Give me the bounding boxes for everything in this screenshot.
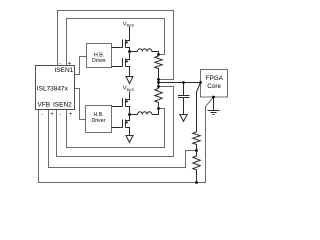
transistor Q1 source lead (126, 48, 130, 52)
wire ISEN1+ loop (IC top pin to R1 top node) (67, 19, 165, 66)
wire sense chain middle (158, 71, 160, 89)
node ISEN1- junction (157, 78, 160, 81)
op-amp U2 upper H.B. Driver box (87, 44, 112, 68)
node FPGA ground pin (212, 96, 215, 99)
svg-text:ISEN2: ISEN2 (53, 102, 72, 109)
svg-text:-: - (59, 61, 61, 67)
resistor R2 phase 2 current sense (155, 89, 162, 106)
svg-text:+: + (68, 61, 71, 67)
svg-text:Driver: Driver (92, 118, 106, 124)
transistor Q4 drain lead (126, 115, 130, 121)
wire VFB- loop (IC bottom pin to FPGA ground) (39, 97, 214, 183)
wire sense chain bottom to phase 2 inductor (152, 106, 159, 115)
wire output rail VOUT (159, 82, 201, 84)
svg-text:ISEN1: ISEN1 (55, 67, 74, 74)
wire L1 to sense chain corner (158, 51, 160, 56)
resistor R3 feedback divider top (193, 132, 200, 151)
inductor L1 (138, 49, 159, 52)
node divider ground (195, 181, 198, 184)
node phase 1 switch node (128, 50, 131, 53)
inductor L2 (138, 112, 152, 115)
transistor Q4 low-side FET phase 2 gate bar (122, 120, 124, 128)
wire upper driver gate stub low (112, 66, 123, 68)
svg-text:ISL73847x: ISL73847x (37, 85, 69, 92)
ground FPGA earth symbol bar 2 (211, 112, 217, 114)
node VOUT rail junction (157, 81, 160, 84)
svg-text:Driver: Driver (92, 58, 106, 64)
wire lower driver gate stub low (112, 127, 123, 129)
op-amp U4 FPGA Core box (201, 70, 228, 98)
node phase 2 switch node (128, 113, 131, 116)
ground phase 2 low FET (126, 136, 133, 143)
node ISEN2- junction (157, 85, 160, 88)
svg-text:-: - (59, 112, 61, 118)
svg-text:+: + (69, 112, 72, 118)
wire VFB+ loop (IC bottom pin to divider tap) (49, 110, 197, 168)
svg-text:VFB: VFB (38, 102, 51, 109)
wire phase 1 switch node to inductor (130, 51, 138, 53)
transistor Q3 source lead (126, 107, 130, 115)
node divider tap (195, 149, 198, 152)
transistor Q2 channel bar (125, 59, 127, 67)
transistor Q3 channel bar (125, 99, 127, 107)
transistor Q2 source lead (126, 67, 130, 77)
transistor Q4 channel bar (125, 120, 127, 128)
wire FPGA input to feedback divider (197, 83, 201, 133)
transistor Q2 body dot (126, 61, 128, 63)
transistor Q4 body dot (126, 122, 128, 124)
op-amp U3 lower H.B. Driver box (86, 106, 112, 133)
ground output capacitor (180, 115, 187, 122)
ground phase 1 low FET (126, 77, 133, 84)
transistor Q3 drain lead (126, 92, 130, 100)
node FPGA input (199, 81, 202, 84)
transistor Q3 body dot (126, 101, 128, 103)
svg-text:BUS: BUS (127, 88, 135, 92)
node ISEN1+ junction (157, 53, 160, 56)
capacitor C1 plate bottom (178, 97, 190, 99)
svg-text:-: - (41, 112, 43, 118)
svg-text:Core: Core (207, 83, 221, 90)
capacitor C1 plate top (178, 95, 190, 97)
ground FPGA earth symbol bar 3 (213, 114, 215, 116)
svg-text:FPGA: FPGA (206, 75, 224, 82)
resistor R4 feedback divider bottom (193, 151, 200, 183)
transistor Q1 channel bar (125, 40, 127, 48)
op-amp U1 controller box ISL73847x (36, 66, 75, 110)
wire PWM2 from IC to lower driver (75, 89, 86, 120)
node ISEN2+ junction (157, 107, 160, 110)
ground FPGA earth symbol bar 1 (208, 110, 220, 112)
resistor R1 phase 1 current sense (155, 56, 162, 71)
wire upper driver gate stub high (112, 47, 123, 49)
svg-text:+: + (50, 112, 53, 118)
transistor Q1 drain lead (126, 27, 130, 41)
transistor Q4 source lead (126, 128, 130, 136)
wire ISEN1- loop (IC top pin to R1 bottom node) (58, 11, 174, 80)
node capacitor tap (182, 81, 185, 84)
transistor Q2 drain lead (126, 52, 130, 60)
wire PWM1 from IC to upper driver (75, 57, 87, 75)
transistor Q2 low-side FET phase 1 gate bar (122, 59, 124, 67)
svg-text:BUS: BUS (127, 24, 135, 28)
wire FPGA ground pin (213, 97, 215, 111)
transistor Q1 body dot (126, 42, 128, 44)
transistor Q1 high-side FET phase 1 gate bar (122, 40, 124, 48)
transistor Q3 high-side FET phase 2 gate bar (122, 99, 124, 107)
capacitor C1 lead bottom (183, 98, 185, 115)
wire ISEN2- loop (IC bottom pin to R2 top node) (57, 87, 174, 157)
wire ISEN2+ loop (IC bottom pin to R2 bottom node) (67, 109, 165, 148)
wire phase 2 switch node to inductor (130, 114, 138, 116)
capacitor C1 output lead top (183, 83, 185, 96)
wire lower driver gate stub high (112, 106, 123, 108)
